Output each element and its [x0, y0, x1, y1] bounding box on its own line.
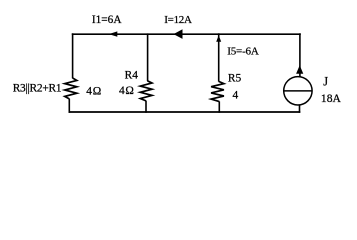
svg-text:4Ω: 4Ω — [86, 85, 102, 97]
label I=12A — [164, 14, 192, 26]
wire R4 branch top — [147, 33, 149, 81]
current arrow I1 — [109, 31, 118, 36]
label 18A — [321, 92, 342, 105]
svg-text:I1=6A: I1=6A — [92, 14, 122, 26]
current arrow of source J — [296, 65, 303, 74]
svg-text:18A: 18A — [321, 92, 342, 105]
svg-text:4Ω: 4Ω — [119, 85, 135, 97]
svg-text:R4: R4 — [125, 70, 139, 82]
wire left vertical (bottom stub) — [68, 99, 70, 113]
label I5=-6A — [227, 46, 259, 58]
label 4 (R5 value) — [233, 89, 239, 101]
svg-text:I5=-6A: I5=-6A — [227, 46, 259, 58]
resistor R4 — [140, 81, 152, 101]
current arrow I5 — [216, 35, 221, 42]
label 4ohm mid — [119, 85, 135, 97]
current source J circle — [284, 77, 312, 105]
label 4ohm left — [86, 85, 102, 97]
label R4 — [125, 70, 139, 82]
wire top horizontal — [72, 33, 301, 35]
label J — [323, 74, 328, 88]
wire R5 branch bottom — [218, 101, 220, 112]
wire source bottom stub — [299, 105, 301, 113]
wire bottom horizontal — [69, 111, 301, 113]
label R3||R2+R1 — [13, 83, 62, 95]
label I1=6A — [92, 14, 122, 26]
svg-text:J: J — [323, 74, 328, 88]
label R5 — [228, 72, 242, 84]
svg-text:4: 4 — [233, 89, 239, 101]
resistor R5 — [211, 81, 224, 101]
wire left vertical (top stub) — [72, 33, 74, 78]
resistor R3||R2+R1 — [65, 78, 77, 99]
svg-text:R3||R2+R1: R3||R2+R1 — [13, 83, 62, 95]
wire R5 branch vertical — [218, 33, 220, 81]
current arrow I — [174, 29, 183, 39]
svg-text:I=12A: I=12A — [164, 14, 192, 26]
wire R4 branch bottom — [145, 101, 147, 113]
svg-text:R5: R5 — [228, 72, 242, 84]
wire right vertical — [299, 33, 301, 76]
